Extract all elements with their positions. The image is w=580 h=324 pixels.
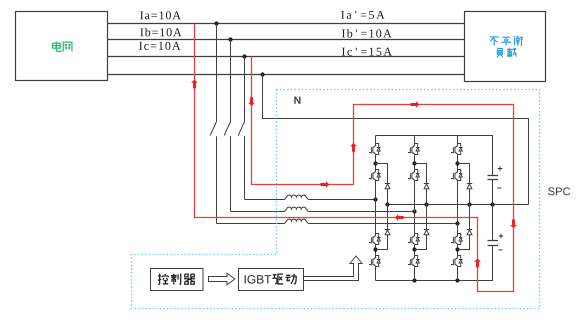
label Ic=10A	[139, 42, 180, 50]
label Ic'=15A	[342, 48, 392, 56]
IGBT Q5	[408, 142, 420, 158]
wire DC midpoint row	[388, 204, 529, 206]
node bus leg C	[455, 278, 459, 282]
diode D3	[424, 184, 429, 189]
label Ia=10A	[140, 11, 181, 19]
node leg A upper junction	[373, 161, 377, 165]
wire drop phase b upper	[230, 40, 232, 122]
label Ib'=10A	[342, 29, 392, 37]
node midrow diode leg C	[467, 202, 471, 206]
IGBT Q1	[369, 142, 381, 158]
node phase b to leg	[412, 209, 416, 213]
wire phase b row right	[308, 211, 414, 213]
unbalanced load box	[465, 12, 546, 82]
label 不平衡负载 (unbalanced load)	[490, 36, 523, 57]
wire drop phase a upper	[216, 24, 218, 122]
IGBT Q11	[451, 232, 463, 248]
wire drop phase a lower	[216, 136, 218, 223]
wire phase a row right	[308, 223, 457, 225]
node leg C lower junction	[455, 247, 459, 251]
node tap neutral	[260, 72, 264, 76]
red arrow right top	[411, 101, 420, 108]
wire drop phase b lower	[230, 136, 232, 211]
switch S2 blade	[224, 122, 230, 136]
IGBT Q9	[451, 142, 463, 158]
IGBT Q6	[408, 168, 420, 184]
IGBT Q8	[408, 254, 420, 270]
diode D5	[467, 184, 472, 189]
capacitor C1 upper	[488, 176, 499, 205]
diode D2	[385, 230, 390, 235]
node phase a to leg	[455, 221, 459, 225]
IGBT Q12	[451, 254, 463, 270]
diode D1	[385, 184, 390, 189]
label C2 minus	[498, 249, 502, 251]
controller box	[151, 269, 204, 291]
node phase c to leg	[373, 197, 377, 201]
wire phase line c (Ic)	[108, 56, 465, 58]
inductor L1	[285, 195, 309, 199]
label C1 minus	[497, 187, 501, 189]
wire clamp branch leg A	[376, 164, 388, 250]
label N	[294, 97, 300, 104]
node tap phase a	[214, 21, 218, 25]
node leg B upper junction	[412, 161, 416, 165]
label C2 plus	[499, 234, 504, 239]
inductor L2	[285, 207, 309, 211]
label 控制器 (controller)	[158, 274, 195, 285]
IGBT Q10	[451, 168, 463, 184]
wire drop phase c lower	[244, 136, 246, 199]
wire phase line a (Ia)	[108, 23, 465, 25]
label C1 plus	[498, 166, 503, 171]
switch S3 blade	[238, 122, 244, 136]
red arrow down phase c	[248, 97, 255, 106]
block arrow driver to bridge	[304, 256, 363, 281]
diode D6	[467, 230, 472, 235]
red arrow up inner	[474, 259, 481, 268]
node tap phase b	[228, 37, 232, 41]
node leg B lower junction	[412, 247, 416, 251]
node leg A lower junction	[373, 247, 377, 251]
node midrow diode leg B	[424, 202, 428, 206]
wire leg A vertical	[375, 136, 377, 281]
wire DC- bottom bus	[376, 246, 493, 281]
node bus leg B	[412, 278, 416, 282]
capacitor C2 lower	[488, 205, 499, 246]
label 电网 (power grid)	[52, 42, 72, 52]
block arrow controller to driver	[209, 273, 235, 285]
wire drop phase c upper	[244, 57, 246, 122]
wire red path	[195, 24, 514, 292]
label IGBT驱动 (IGBT drive)	[245, 274, 297, 284]
power grid box	[16, 12, 108, 81]
red arrow down right	[510, 220, 517, 229]
wire neutral drop and run	[263, 75, 529, 205]
wire leg B vertical	[414, 136, 416, 281]
IGBT Q7	[408, 232, 420, 248]
red arrow up phase a	[191, 80, 198, 89]
IGBT Q2	[369, 168, 381, 184]
label Ia'=5A	[341, 11, 385, 19]
label SPC	[548, 187, 570, 195]
wire neutral line	[108, 74, 465, 76]
wire DC+ top rail	[376, 136, 493, 176]
wire clamp branch leg B	[415, 164, 427, 250]
inductor L3	[285, 219, 309, 223]
wire phase a row left	[217, 223, 285, 225]
SPC dotted boundary	[132, 90, 540, 309]
IGBT Q3	[369, 232, 381, 248]
node tap phase c	[242, 54, 246, 58]
switch S1 blade	[210, 122, 216, 136]
wire phase line b (Ib)	[108, 39, 465, 41]
IGBT Q4	[369, 254, 381, 270]
red arrow up mid	[350, 143, 357, 152]
red arrow left row	[395, 214, 404, 221]
IGBT driver box	[239, 269, 304, 291]
wire phase c row left	[245, 199, 285, 201]
wire phase c row right	[308, 199, 375, 201]
wire phase b row left	[231, 211, 285, 213]
node midrow diode leg A	[385, 202, 389, 206]
label Ib=10A	[140, 28, 181, 36]
wire clamp branch leg C	[458, 164, 470, 250]
node leg C upper junction	[455, 161, 459, 165]
red arrow right lower	[320, 181, 329, 188]
wire leg C vertical	[457, 136, 459, 281]
diode D4	[424, 230, 429, 235]
node midrow capacitor	[490, 202, 494, 206]
